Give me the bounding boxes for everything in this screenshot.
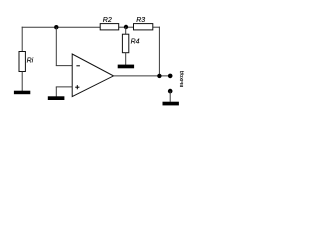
wire top horizontal left segment	[22, 26, 101, 28]
ground (under non-inverting input)	[48, 96, 65, 100]
wire junction down to R4	[125, 27, 127, 34]
wire R4 to ground	[125, 53, 127, 65]
wire Ri to ground	[21, 72, 23, 92]
svg-text:R2: R2	[103, 17, 112, 24]
ground (left, under Ri)	[14, 91, 30, 95]
op-amp U1	[72, 54, 113, 97]
wire top horizontal right segment	[153, 26, 160, 28]
wire op-amp output	[114, 75, 171, 77]
wire to inverting input	[56, 65, 72, 67]
wire left vertical down to Ri	[21, 27, 23, 52]
node junction R2/R3/R4	[124, 25, 128, 29]
svg-text:Ri: Ri	[27, 57, 34, 64]
wire non-inverting down to ground	[55, 87, 57, 97]
resistor R4	[122, 34, 139, 53]
svg-text:R4: R4	[131, 39, 140, 46]
ground (middle, under R4)	[118, 65, 134, 69]
terminal output return	[168, 89, 173, 94]
ground (right, under output terminal)	[163, 102, 179, 106]
wire top horizontal middle segment	[119, 26, 134, 28]
terminal output (выход)	[168, 74, 173, 79]
svg-text:выход: выход	[179, 70, 185, 87]
wire to non-inverting input	[56, 86, 72, 88]
node junction output/feedback	[157, 74, 161, 78]
wire right vertical feedback	[158, 27, 160, 76]
node junction on top wire (inverting tap)	[54, 25, 58, 29]
resistor Ri	[19, 52, 34, 72]
resistor R3	[134, 17, 153, 30]
wire junction down to inverting input	[55, 27, 57, 65]
resistor R2	[100, 17, 119, 30]
wire terminal to ground	[169, 91, 171, 102]
svg-text:R3: R3	[136, 17, 145, 24]
